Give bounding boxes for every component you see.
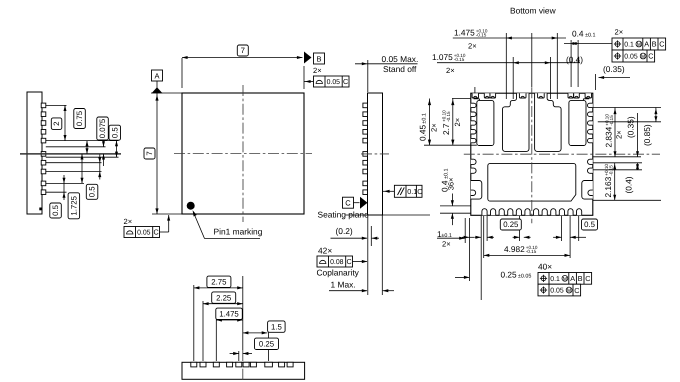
svg-text:(0.35): (0.35) [603,64,625,74]
dimension 1.725 label [68,193,80,219]
dimension 0.5 upper label [109,125,120,140]
view D ext from terminal 1 [193,285,195,361]
svg-text:2×: 2× [468,42,477,51]
profile frame 2X bottom [124,227,160,238]
side view C: package body outline [368,93,383,215]
svg-text:1.5: 1.5 [271,322,283,331]
bottom view: center pad P2 [503,93,530,151]
extension line near lead flank [46,146,106,148]
bottom view: right stub pad row 7 [587,168,592,173]
position frame top right row 1 [612,38,666,50]
side view D: terminal 3 [213,362,219,367]
svg-text:C: C [153,228,158,237]
bottom dim line row [462,236,474,238]
svg-text:2×: 2× [313,66,322,75]
dimension 0.075 arrow up [102,154,105,160]
svg-text:-0.15: -0.15 [476,33,487,38]
svg-text:C: C [346,257,351,266]
dimension 0.25 arrow right [243,352,249,355]
pin1 marking leader line [194,213,205,239]
dimension 2.834 text [604,114,614,148]
dimension 0.5 lower-right arrow 1 [98,157,101,163]
svg-text:2.834: 2.834 [604,126,614,147]
svg-text:0.05: 0.05 [624,54,638,61]
dimension 0.5 lower-left line [63,183,65,192]
ext line right at pad top [593,107,661,109]
svg-text:2.7: 2.7 [441,123,451,135]
dimension 7 horizontal arrow right [297,56,303,59]
svg-text:M: M [641,54,645,60]
leader from bottom profile frame [160,231,169,233]
dimension 2 arrow up [64,105,67,111]
stand off extension line [367,60,369,92]
dimension (0.4) right arrows [636,164,639,170]
svg-text:0.5: 0.5 [584,220,596,229]
dimension 0.25 bottom label [500,219,521,230]
svg-text:0.1: 0.1 [624,42,634,49]
leader to right-edge profile frame [304,81,314,83]
stand off gap extension [370,226,372,246]
side view A: terminal 8 [41,169,46,174]
svg-text:Stand off: Stand off [383,64,417,74]
dimension (0.2) line left [331,237,367,239]
side view C: terminal 3 [363,121,368,126]
dimension 1.475 line [216,319,243,321]
side view D: terminal 4 [227,362,233,367]
svg-text:2×: 2× [614,130,623,139]
dimension 0.5 bottom label [582,219,598,230]
svg-text:1.475: 1.475 [219,310,239,319]
dimension (0.35) right line [637,113,639,157]
bottom view: left stub pad row 6 [471,159,476,164]
ext line right at (0.35) top [593,156,641,158]
ext line 1.075 right [549,57,551,99]
ext line bottom-left pad a [464,218,466,243]
extension line from terminal row 9 [46,182,84,184]
bottom view: left edge pad 3 [471,121,476,125]
dimension 2.25 line [203,303,243,305]
stand off arrow [362,62,368,65]
dimension 4.982 line [484,254,570,256]
dimension 0.5 lower-left ext a [63,175,65,183]
dimension 2.7 line [452,99,454,146]
dimension 1.075 arrows [513,61,519,64]
dimension 1.5 line [243,332,267,334]
dimension 0.4 36x text [440,168,450,192]
ext line left 0.4 bottom [440,212,471,214]
bottom view: bottom edge pad 8 [542,209,547,216]
svg-text:0.5: 0.5 [51,204,60,216]
ext line top right pad a [570,40,572,87]
view D ext from terminal 3 [215,317,217,361]
dimension 2.163 text [603,164,613,198]
svg-text:7: 7 [145,151,154,155]
svg-text:2.163: 2.163 [603,176,613,197]
svg-text:±0.1: ±0.1 [585,33,595,39]
extension line from terminal row 10 [46,191,67,193]
side view C: terminal 10 [363,190,368,195]
dimension 0.5 lower-left arrow 2 [63,192,66,198]
dimension 7 horizontal arrow left [182,56,188,59]
dimension 0.75 line [86,141,88,154]
ext line 1.475 left [505,33,507,99]
dimension 0.5 lower-right ext a [99,155,101,163]
top view: horizontal center line [174,153,312,155]
dimension 0.45 arrows [428,100,431,106]
dimension (0.85) arrows [654,109,657,115]
parallelism frame [394,185,422,197]
ext line right at (0.35) bottom [593,162,642,164]
view D ext from terminal 5 [238,351,240,361]
dimension 1.475 label [216,308,243,319]
side view C: center line [361,153,389,155]
parallelism frame leader [383,190,394,192]
side view D: terminal 5 [236,362,242,367]
stand off dimension line [355,63,418,65]
ext line top right pad b [577,40,579,87]
svg-text:1.725: 1.725 [70,195,79,215]
datum C leader [354,202,360,204]
dimension 1.725 arrow down [81,178,84,184]
dimension 0.4 top text [572,29,596,39]
ext line bottom 0.25 right [486,216,488,241]
dimension 1.475 arrows [216,318,222,321]
bottom view: top edge pad c [490,93,496,98]
dimension (0.35) arrow line [599,77,631,79]
bottom view: P1 top notch step [474,98,480,100]
bottom view: bottom edge pad 12 [577,209,582,216]
svg-text:0.45: 0.45 [418,124,428,141]
extension line below center [46,156,119,158]
dimension 1.5 arrows [243,331,249,334]
dimension 0.4 top arrows [571,42,577,45]
bottom view: top edge pad a [472,93,478,98]
dimension 0.075 arrow down [102,141,105,147]
svg-text:C: C [659,40,664,49]
bottom view: right edge pad 4 [588,130,593,134]
side view A: terminal 3 [41,121,46,126]
svg-text:2×: 2× [124,217,133,226]
bottom view: bottom edge pad 10 [559,209,564,216]
ext line bottom 4.982 right [569,216,571,258]
svg-text:-0.15: -0.15 [446,111,451,122]
bottom view: corner pad BL (bottom-left) [471,181,482,200]
svg-text:(0.85): (0.85) [642,124,652,146]
dimension 2.163 arrows [613,164,616,170]
side view A: pin1 corner mark [39,208,42,211]
dimension 1.725 line [81,154,83,184]
svg-text:0.1: 0.1 [407,187,417,196]
svg-text:C: C [585,274,590,283]
side view D: terminal 10 [287,362,293,367]
svg-text:B: B [316,54,321,63]
svg-text:0.05: 0.05 [327,79,341,86]
extension line from terminal row 8 [46,171,102,173]
side view A: terminal 4 [41,130,46,135]
top view right edge extension [303,66,305,89]
side view D: terminal 6 [243,362,249,367]
svg-text:0.1: 0.1 [550,276,560,283]
position frame top right row 2 [612,50,655,62]
bottom view: left edge pad 1 [471,103,476,107]
ext line center up [531,33,533,87]
svg-text:0.4: 0.4 [572,29,584,39]
svg-text:0.25: 0.25 [501,270,518,280]
bottom view: top edge pad h [585,93,591,98]
view C right edge extension down [381,215,383,295]
dimension 1.075 top line [437,62,580,64]
bottom dim 0.5 arrows [553,236,561,238]
svg-text:Coplanarity: Coplanarity [317,268,360,278]
bottom view: left edge pad 4 [471,130,476,134]
side view D: terminal 7 [250,362,256,367]
dimension 0.25 +-0.05 text [501,270,532,280]
ext line bottom pads left pair b [483,216,485,258]
svg-text:2.75: 2.75 [211,278,227,287]
svg-text:4.982: 4.982 [504,244,525,254]
bottom view: corner pad P1 (top-left) [477,100,494,145]
side view C: terminal 1 [363,103,368,108]
bottom dim 0.25 arrows [474,236,481,238]
svg-text:7: 7 [241,46,245,55]
side view A: terminal 2 [41,112,46,117]
dimension 2.25 arrows [203,302,209,305]
dimension 2 label [51,118,62,130]
svg-text:1.075: 1.075 [432,52,453,62]
dimension 0.5 upper arrow 2 [115,152,118,158]
dimension 1.475 top line [453,37,566,39]
dimension 0.75 label [74,109,86,129]
dimension (0.2) arrow left [362,237,368,240]
svg-text:0.075: 0.075 [98,118,107,138]
ext line right at (0.4) row [593,169,642,171]
svg-text:M: M [563,276,567,282]
dimension 7 horizontal label [237,45,248,56]
seating plane extended line [345,214,430,216]
svg-text:0.25: 0.25 [259,340,275,349]
bottom view: bottom edge pad 1 [482,209,487,216]
dimension 0.25 arrow left [233,352,239,355]
dimension 7 vertical arrow up [155,95,158,101]
svg-text:Seating plane: Seating plane [318,210,370,220]
svg-text:36×: 36× [447,177,456,190]
svg-text:Pin1 marking: Pin1 marking [214,227,263,237]
svg-text:2: 2 [52,122,61,126]
coplanarity frame leader [353,261,367,263]
svg-text:2×: 2× [430,123,439,132]
ext line left top [452,98,471,100]
svg-text:0.08: 0.08 [330,259,344,266]
dimension 0.075 label [97,117,109,140]
top view: bottom edge extension left [152,213,182,215]
dimension 0.4 36x arrow up [451,213,454,219]
ext line bottom mid a [519,216,521,241]
bottom view: left stub pad row 7 [471,168,476,173]
side view A: terminal 1 [41,103,46,108]
dimension 7 vertical arrow down [155,208,158,214]
svg-text:C: C [343,77,348,86]
svg-text:2.25: 2.25 [216,293,232,302]
dimension 1.475 text [454,28,488,38]
pin1 marking leader arrow [193,210,197,216]
dimension 1 arrow line [437,237,464,239]
ext line bottom-left pad b [469,218,471,281]
dimension 0.25 +-0.05 arrow [455,276,469,278]
side view A: terminal 9 [41,181,46,186]
dimension 2 arrow down [64,135,67,141]
svg-text:-0.15: -0.15 [608,165,613,176]
dimension 2.75 line [194,287,243,289]
datum A flag [152,70,163,81]
datum B flag [314,53,325,64]
svg-text:M: M [567,288,571,294]
side view C: terminal 4 [363,130,368,135]
ext line bottom 0.5 right [578,216,580,241]
svg-text:(0.4): (0.4) [623,176,633,193]
svg-text:±0.1: ±0.1 [422,113,428,123]
dimension (0.35) right arrow [636,151,639,157]
bottom view: vertical center line [531,87,533,223]
dimension 0.25 label [255,338,279,349]
svg-text:C: C [648,52,653,61]
pin1 marking dot [187,202,195,210]
dimension 2.7 text [441,110,451,135]
dimension 0.5 lower-right ext b [99,172,101,180]
bottom view: bottom edge pad 11 [568,209,573,216]
svg-text:(0.4): (0.4) [566,55,583,65]
dimension (0.4) right line [637,163,639,170]
side view C: terminal 2 [363,112,368,117]
dimension 0.4 36x arrow down [451,200,454,206]
datum B triangle [304,52,312,64]
dimension 2.7 arrows [451,100,454,106]
bottom view: P4 top notch step [583,98,589,100]
bottom view: bottom edge pad 2 [491,209,496,216]
datum A triangle [152,87,163,93]
dimension 0.075 upper arrow line [103,136,105,147]
dimension 0.5 lower-left ext b [63,192,65,200]
extension line from terminal row 1 [46,104,67,106]
dimension 2.25 label [212,292,236,303]
svg-text:0.05: 0.05 [137,230,151,237]
bottom view: right stub pad row 6 [588,159,593,164]
extension line from terminal row 7 [46,162,102,164]
dimension 7 horizontal line [182,57,303,59]
dimension 1 Max line right [383,290,394,292]
svg-text:2×: 2× [453,118,462,127]
bottom view: top edge pad f [568,93,574,98]
svg-text:B: B [578,274,583,283]
ext line right at 2.163 bottom [593,199,661,201]
dimension 2.834 arrows [614,109,617,115]
svg-text:0.05: 0.05 [550,288,564,295]
dimension 1.075 text [432,52,466,62]
side view A: terminal 10 [41,190,46,195]
side view A: package body outline [27,92,42,214]
bottom view: right edge pad 3 [588,121,593,125]
dimension 0.4 36x line top [451,194,453,206]
side view C: terminal 5 [363,138,368,143]
bottom view: bottom edge pad 3 [499,209,504,216]
position frame 40X row 2 [538,284,581,296]
view D ext from terminal 2 [202,301,204,361]
center line of view A [20,153,121,155]
bottom view: bottom edge pad 6 [525,209,530,216]
bottom dim mid arrows [513,236,520,238]
dimension 1 Max arrow left [362,289,368,292]
svg-text:A: A [154,71,159,80]
svg-text:-0.15: -0.15 [526,249,537,254]
dimension 1 text [437,229,452,239]
dimension 0.4 top line [564,43,612,45]
dimension 1 Max line left [329,290,367,292]
side view D: center line [242,350,244,382]
coplanarity frame [317,256,353,267]
bottom view: left edge pad 5 [471,138,476,142]
dimension 0.4 36x line bottom [451,213,453,225]
dimension 4.982 arrows [484,254,490,257]
dimension 0.075 lower arrow line [103,154,105,166]
side view C: terminal 8 [363,169,368,174]
bottom view: bottom edge pad 5 [516,209,521,216]
svg-text:1.475: 1.475 [454,28,475,38]
dimension 2 line [64,105,66,140]
svg-text:±0.05: ±0.05 [518,274,531,280]
view D ext from terminal 8 [268,330,270,361]
extension line from terminal row 5 [46,140,119,142]
bottom view: bottom edge pad 4 [508,209,513,216]
top view: left edge extension up [151,92,182,94]
dimension (0.2) line right [372,237,379,239]
side view C: terminal 9 [363,181,368,186]
side view A: terminal 6 [41,152,46,157]
position frame 40X row 1 [538,273,592,285]
bottom view: horizontal center line [464,153,660,155]
dimension 0.5 upper arrow 1 [115,141,118,147]
svg-text:42×: 42× [318,246,332,256]
svg-text:C: C [345,199,351,208]
view D ext center [242,276,244,350]
dimension 0.5 upper arrow line a [116,141,118,158]
ext line bottom pads left pair a [480,216,482,300]
dimension 0.5 lower-right line [99,163,101,172]
dimension 0.45 text [418,113,428,141]
svg-text:0.75: 0.75 [75,110,84,126]
top view: vertical center line [242,85,244,222]
bottom view: right edge pad 5 [588,138,593,142]
dimension 0.5 lower-right arrow 2 [98,172,101,178]
ext line 1.075 left [512,57,514,99]
dimension 7 vertical label [144,148,155,159]
svg-text:40×: 40× [538,262,552,272]
svg-text:(0.2): (0.2) [336,226,353,236]
svg-text:C: C [574,286,579,295]
dimension 7 vertical line [156,93,158,214]
svg-text:2×: 2× [446,66,455,75]
svg-text:0.05 Max.: 0.05 Max. [382,54,419,64]
side view D: package body outline [182,362,305,379]
bottom view: right edge pad 1 [588,103,593,107]
bottom view: corner pad P4 (top-right) [569,100,586,145]
side view D: terminal 8 [265,362,273,367]
svg-text:2×: 2× [615,28,624,37]
top view: top edge extension left [181,58,183,88]
bottom view: top edge pad g [574,93,580,98]
bottom view: bottom edge pad 7 [534,209,539,216]
svg-text:1 Max.: 1 Max. [331,280,356,290]
datum C triangle [360,197,368,209]
side view D: terminal 9 [279,362,285,367]
